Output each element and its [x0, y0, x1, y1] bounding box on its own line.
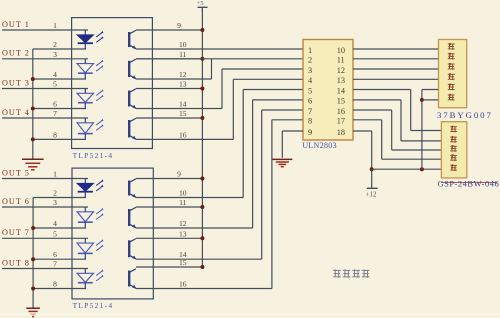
- svg-text:8: 8: [53, 280, 57, 289]
- wire U3 pin 14 out: [353, 89, 411, 91]
- svg-text:14: 14: [337, 86, 346, 95]
- svg-text:6: 6: [53, 250, 57, 259]
- wire label green 绿: [448, 63, 455, 70]
- wire U2 pin 9 collector to +5: [136, 178, 202, 180]
- op-amp U1 optocoupler TLP521-4 box: [72, 18, 153, 149]
- phototransistor Q4 of U1 ch4: [129, 118, 136, 140]
- junction: [420, 98, 424, 102]
- wire riser to U3 pin 3: [221, 69, 223, 109]
- wire riser to U3 pin 8: [271, 120, 273, 289]
- wire U3 pin 16 out: [353, 109, 392, 111]
- svg-text:2: 2: [53, 189, 57, 198]
- svg-text:15: 15: [337, 97, 345, 106]
- junction: [31, 226, 35, 230]
- wire J2 row 4 feed: [382, 158, 442, 160]
- wire U2 cathode pin 4: [33, 227, 86, 229]
- svg-text:16: 16: [179, 130, 187, 139]
- svg-text:OUT 3: OUT 3: [2, 78, 30, 87]
- wire U1 cathode pin 6: [33, 108, 86, 110]
- wire U1 cathode pin 8: [33, 138, 86, 140]
- wire U2 pin 13 collector to +5: [136, 237, 202, 239]
- wire U3 pin 10 to J1: [353, 48, 439, 50]
- wire U3 pin 3 feed: [222, 68, 303, 70]
- wire U1 cathode pin 4: [33, 78, 86, 80]
- junction: [31, 257, 35, 261]
- wire OUT2 to U1 anode pin 3: [2, 58, 88, 60]
- wire U1 pin 11 collector to +5: [136, 58, 202, 60]
- LED D1 of U1 ch1: [77, 30, 104, 49]
- ground: [272, 159, 292, 166]
- svg-text:12: 12: [179, 219, 187, 228]
- svg-text:2: 2: [53, 40, 57, 49]
- phototransistor Q2 of U1 ch2: [129, 59, 136, 80]
- svg-text:6: 6: [308, 97, 312, 106]
- J2 label GSP-24BW-046: [441, 182, 497, 184]
- scan artifact band: [0, 313, 500, 316]
- wire U3 pin 8 feed: [272, 119, 303, 121]
- wire U3 pin 4 feed: [233, 78, 303, 80]
- wire U2 cathode pin 8: [33, 288, 86, 290]
- svg-text:11: 11: [337, 56, 345, 65]
- wire label pink 粉: [450, 154, 457, 161]
- wire U2 cathode bus: [32, 198, 34, 308]
- svg-text:9: 9: [177, 170, 181, 179]
- svg-text:9: 9: [308, 128, 312, 137]
- transistor-array U3 ULN2803 box: [303, 40, 353, 141]
- wire label blue 蓝: [448, 73, 455, 80]
- wire U2 cathode pin 6: [33, 258, 86, 260]
- wire OUT3 to U1 anode pin 5: [2, 88, 88, 90]
- phototransistor Q3 of U1 ch3: [129, 89, 136, 109]
- wire label yellow 黄: [450, 126, 457, 133]
- svg-text:5: 5: [53, 229, 57, 238]
- wire U3 pin 9 to ground: [282, 130, 303, 132]
- phototransistor Q7 of U2 ch3: [129, 239, 136, 260]
- wire U2 pin 10 emitter: [136, 197, 243, 199]
- wire +5 rail: [201, 7, 203, 267]
- wire U1 cathode pin 2: [33, 48, 86, 50]
- svg-text:OUT 1: OUT 1: [2, 20, 30, 29]
- wire J1 white stub: [422, 99, 439, 101]
- svg-text:13: 13: [179, 80, 187, 89]
- svg-text:3: 3: [53, 50, 57, 59]
- wire OUT7 to U2 anode pin 5: [2, 237, 88, 239]
- svg-text:13: 13: [337, 76, 345, 85]
- power +5: [197, 0, 208, 12]
- svg-text:4: 4: [53, 219, 57, 228]
- wire label white 白: [448, 94, 455, 101]
- wire U3 pin 15 out: [353, 99, 401, 101]
- LED D7 of U2 ch3: [77, 238, 103, 259]
- svg-text:+5: +5: [197, 0, 204, 7]
- wire J1 black stub: [422, 89, 439, 91]
- power +12: [366, 188, 378, 198]
- phototransistor Q6 of U2 ch2: [129, 207, 136, 228]
- wire U2 pin 15 collector to +5: [136, 266, 202, 268]
- wire U1 cathode bus: [32, 49, 34, 159]
- wire label orange 橙: [450, 136, 457, 143]
- wire U3 pin 7 feed: [262, 109, 303, 111]
- svg-text:OUT 8: OUT 8: [2, 258, 30, 267]
- junction: [200, 265, 204, 269]
- svg-text:9: 9: [177, 21, 181, 30]
- wire riser to U3 pin 4: [232, 79, 234, 139]
- wire label red 红: [450, 164, 457, 171]
- wire OUT6 to U2 anode pin 3: [2, 206, 88, 208]
- svg-text:1: 1: [308, 46, 312, 55]
- wire U2 pin 11 collector to +5: [136, 206, 202, 208]
- svg-text:OUT 6: OUT 6: [2, 197, 30, 206]
- phototransistor Q8 of U2 ch4: [129, 269, 136, 289]
- title 驱动电路 (driver circuit): [333, 269, 369, 277]
- wire U3 pin 12 to J1: [353, 68, 439, 70]
- wire U3 pin 18 out: [353, 130, 372, 132]
- wire drop to J2 row 3: [391, 110, 393, 150]
- junction: [200, 87, 204, 91]
- wire U1 pin 16 emitter: [136, 138, 233, 140]
- wire OUT5 to U2 anode pin 1: [2, 178, 88, 180]
- svg-text:OUT 5: OUT 5: [2, 168, 30, 177]
- ground: [22, 159, 44, 170]
- wire label red 红: [448, 43, 455, 50]
- svg-text:16: 16: [337, 107, 345, 116]
- wire riser to U3 pin 2: [211, 59, 213, 79]
- wire U1 pin 9 collector to +5: [136, 29, 202, 31]
- svg-text:TLP521-4: TLP521-4: [73, 151, 114, 160]
- svg-text:10: 10: [337, 46, 345, 55]
- svg-text:13: 13: [179, 229, 187, 238]
- svg-text:OUT 4: OUT 4: [2, 108, 30, 117]
- LED D6 of U2 ch2: [77, 207, 103, 228]
- svg-text:7: 7: [53, 260, 57, 269]
- svg-text:12: 12: [179, 70, 187, 79]
- svg-text:10: 10: [179, 189, 187, 198]
- LED D4 of U1 ch4: [77, 118, 103, 139]
- junction: [200, 236, 204, 240]
- wire ground stem: [281, 131, 283, 158]
- LED D5 of U2 ch1: [77, 179, 104, 198]
- svg-text:TLP521-4: TLP521-4: [73, 301, 114, 310]
- ground: [26, 308, 40, 316]
- junction: [200, 116, 204, 120]
- junction: [200, 205, 204, 209]
- svg-text:15: 15: [179, 109, 187, 118]
- wire U3 pin 17 out: [353, 119, 382, 121]
- junction: [420, 167, 424, 171]
- wire label blue 蓝: [450, 145, 457, 152]
- junction: [370, 167, 374, 171]
- svg-text:3: 3: [53, 198, 57, 207]
- connector J1 motor 37BYG007: [439, 40, 467, 108]
- svg-text:OUT 2: OUT 2: [2, 49, 30, 58]
- svg-text:1: 1: [53, 21, 57, 30]
- connector J2 motor GSP-24BW-046: [441, 122, 466, 178]
- wire U1 pin 15 collector to +5: [136, 117, 202, 119]
- wire J2 common feed: [372, 168, 442, 170]
- op-amp U2 optocoupler TLP521-4 box: [72, 168, 153, 299]
- wire drop to J2 row 1: [410, 90, 412, 131]
- svg-text:18: 18: [337, 128, 345, 137]
- wire U3 pin 5 feed: [243, 89, 303, 91]
- LED D2 of U1 ch2: [77, 59, 103, 79]
- wire J2 row 1 feed: [411, 130, 442, 132]
- phototransistor Q1 of U1 ch1: [129, 30, 136, 49]
- svg-text:7: 7: [53, 109, 57, 118]
- svg-text:6: 6: [53, 100, 57, 109]
- svg-text:+12: +12: [366, 191, 377, 198]
- svg-text:ULN2803: ULN2803: [302, 141, 337, 150]
- svg-text:17: 17: [337, 117, 345, 126]
- svg-text:37BYG007: 37BYG007: [437, 110, 493, 120]
- svg-text:11: 11: [179, 50, 187, 59]
- svg-text:1: 1: [53, 170, 57, 179]
- wire U2 cathode pin 2: [33, 197, 86, 199]
- junction: [200, 57, 204, 61]
- svg-text:2: 2: [308, 56, 312, 65]
- wire U2 pin 16 emitter: [136, 288, 272, 290]
- wire +12 riser: [371, 131, 373, 188]
- wire U1 pin 14 emitter: [136, 108, 222, 110]
- wire U1 pin 10 emitter to U3 pin 1: [136, 48, 303, 50]
- svg-text:5: 5: [53, 80, 57, 89]
- svg-text:14: 14: [179, 100, 187, 109]
- wire drop to J2 row 2: [400, 100, 402, 141]
- svg-text:3: 3: [308, 66, 312, 75]
- wire OUT8 to U2 anode pin 7: [2, 268, 88, 270]
- wire U1 pin 13 collector to +5: [136, 88, 202, 90]
- wire U1 pin 11 row to U3 pin 2: [136, 58, 303, 60]
- junction: [200, 177, 204, 181]
- svg-text:16: 16: [179, 280, 187, 289]
- svg-text:4: 4: [53, 70, 57, 79]
- svg-text:8: 8: [53, 130, 57, 139]
- svg-text:5: 5: [308, 86, 312, 95]
- svg-text:11: 11: [179, 198, 187, 207]
- phototransistor Q5 of U2 ch1: [129, 179, 136, 198]
- wire U3 pin 13 to J1: [353, 78, 439, 80]
- wire riser to U3 pin 7: [261, 110, 263, 259]
- svg-text:7: 7: [308, 107, 312, 116]
- LED D8 of U2 ch4: [77, 269, 103, 289]
- wire J2 row 2 feed: [401, 140, 441, 142]
- wire U3 pin 6 feed: [253, 99, 303, 101]
- svg-text:10: 10: [179, 40, 187, 49]
- wire U3 pin 11 to J1: [353, 58, 439, 60]
- wire common bus: [421, 90, 423, 170]
- wire riser to U3 pin 5: [242, 90, 244, 198]
- junction: [31, 137, 35, 141]
- wire drop to J2 row 4: [381, 120, 383, 159]
- junction: [31, 287, 35, 291]
- svg-text:8: 8: [308, 117, 312, 126]
- junction: [31, 77, 35, 81]
- wire OUT4 to U1 anode pin 7: [2, 117, 88, 119]
- wire riser to U3 pin 6: [252, 100, 254, 228]
- wire U1 pin 12 emitter: [136, 78, 212, 80]
- junction: [31, 107, 35, 111]
- LED D3 of U1 ch3: [77, 89, 103, 109]
- wire label yellow 黄: [448, 53, 455, 60]
- junction: [200, 28, 204, 32]
- wire J2 row 3 feed: [392, 149, 442, 151]
- wire label black 黑: [448, 84, 455, 91]
- svg-text:12: 12: [337, 66, 345, 75]
- wire U2 pin 14 emitter: [136, 258, 262, 260]
- wire U2 pin 12 emitter: [136, 227, 253, 229]
- svg-text:OUT 7: OUT 7: [2, 228, 30, 237]
- wire OUT1 to U1 anode pin 1: [2, 29, 88, 31]
- svg-text:GSP-24BW-046: GSP-24BW-046: [438, 178, 500, 188]
